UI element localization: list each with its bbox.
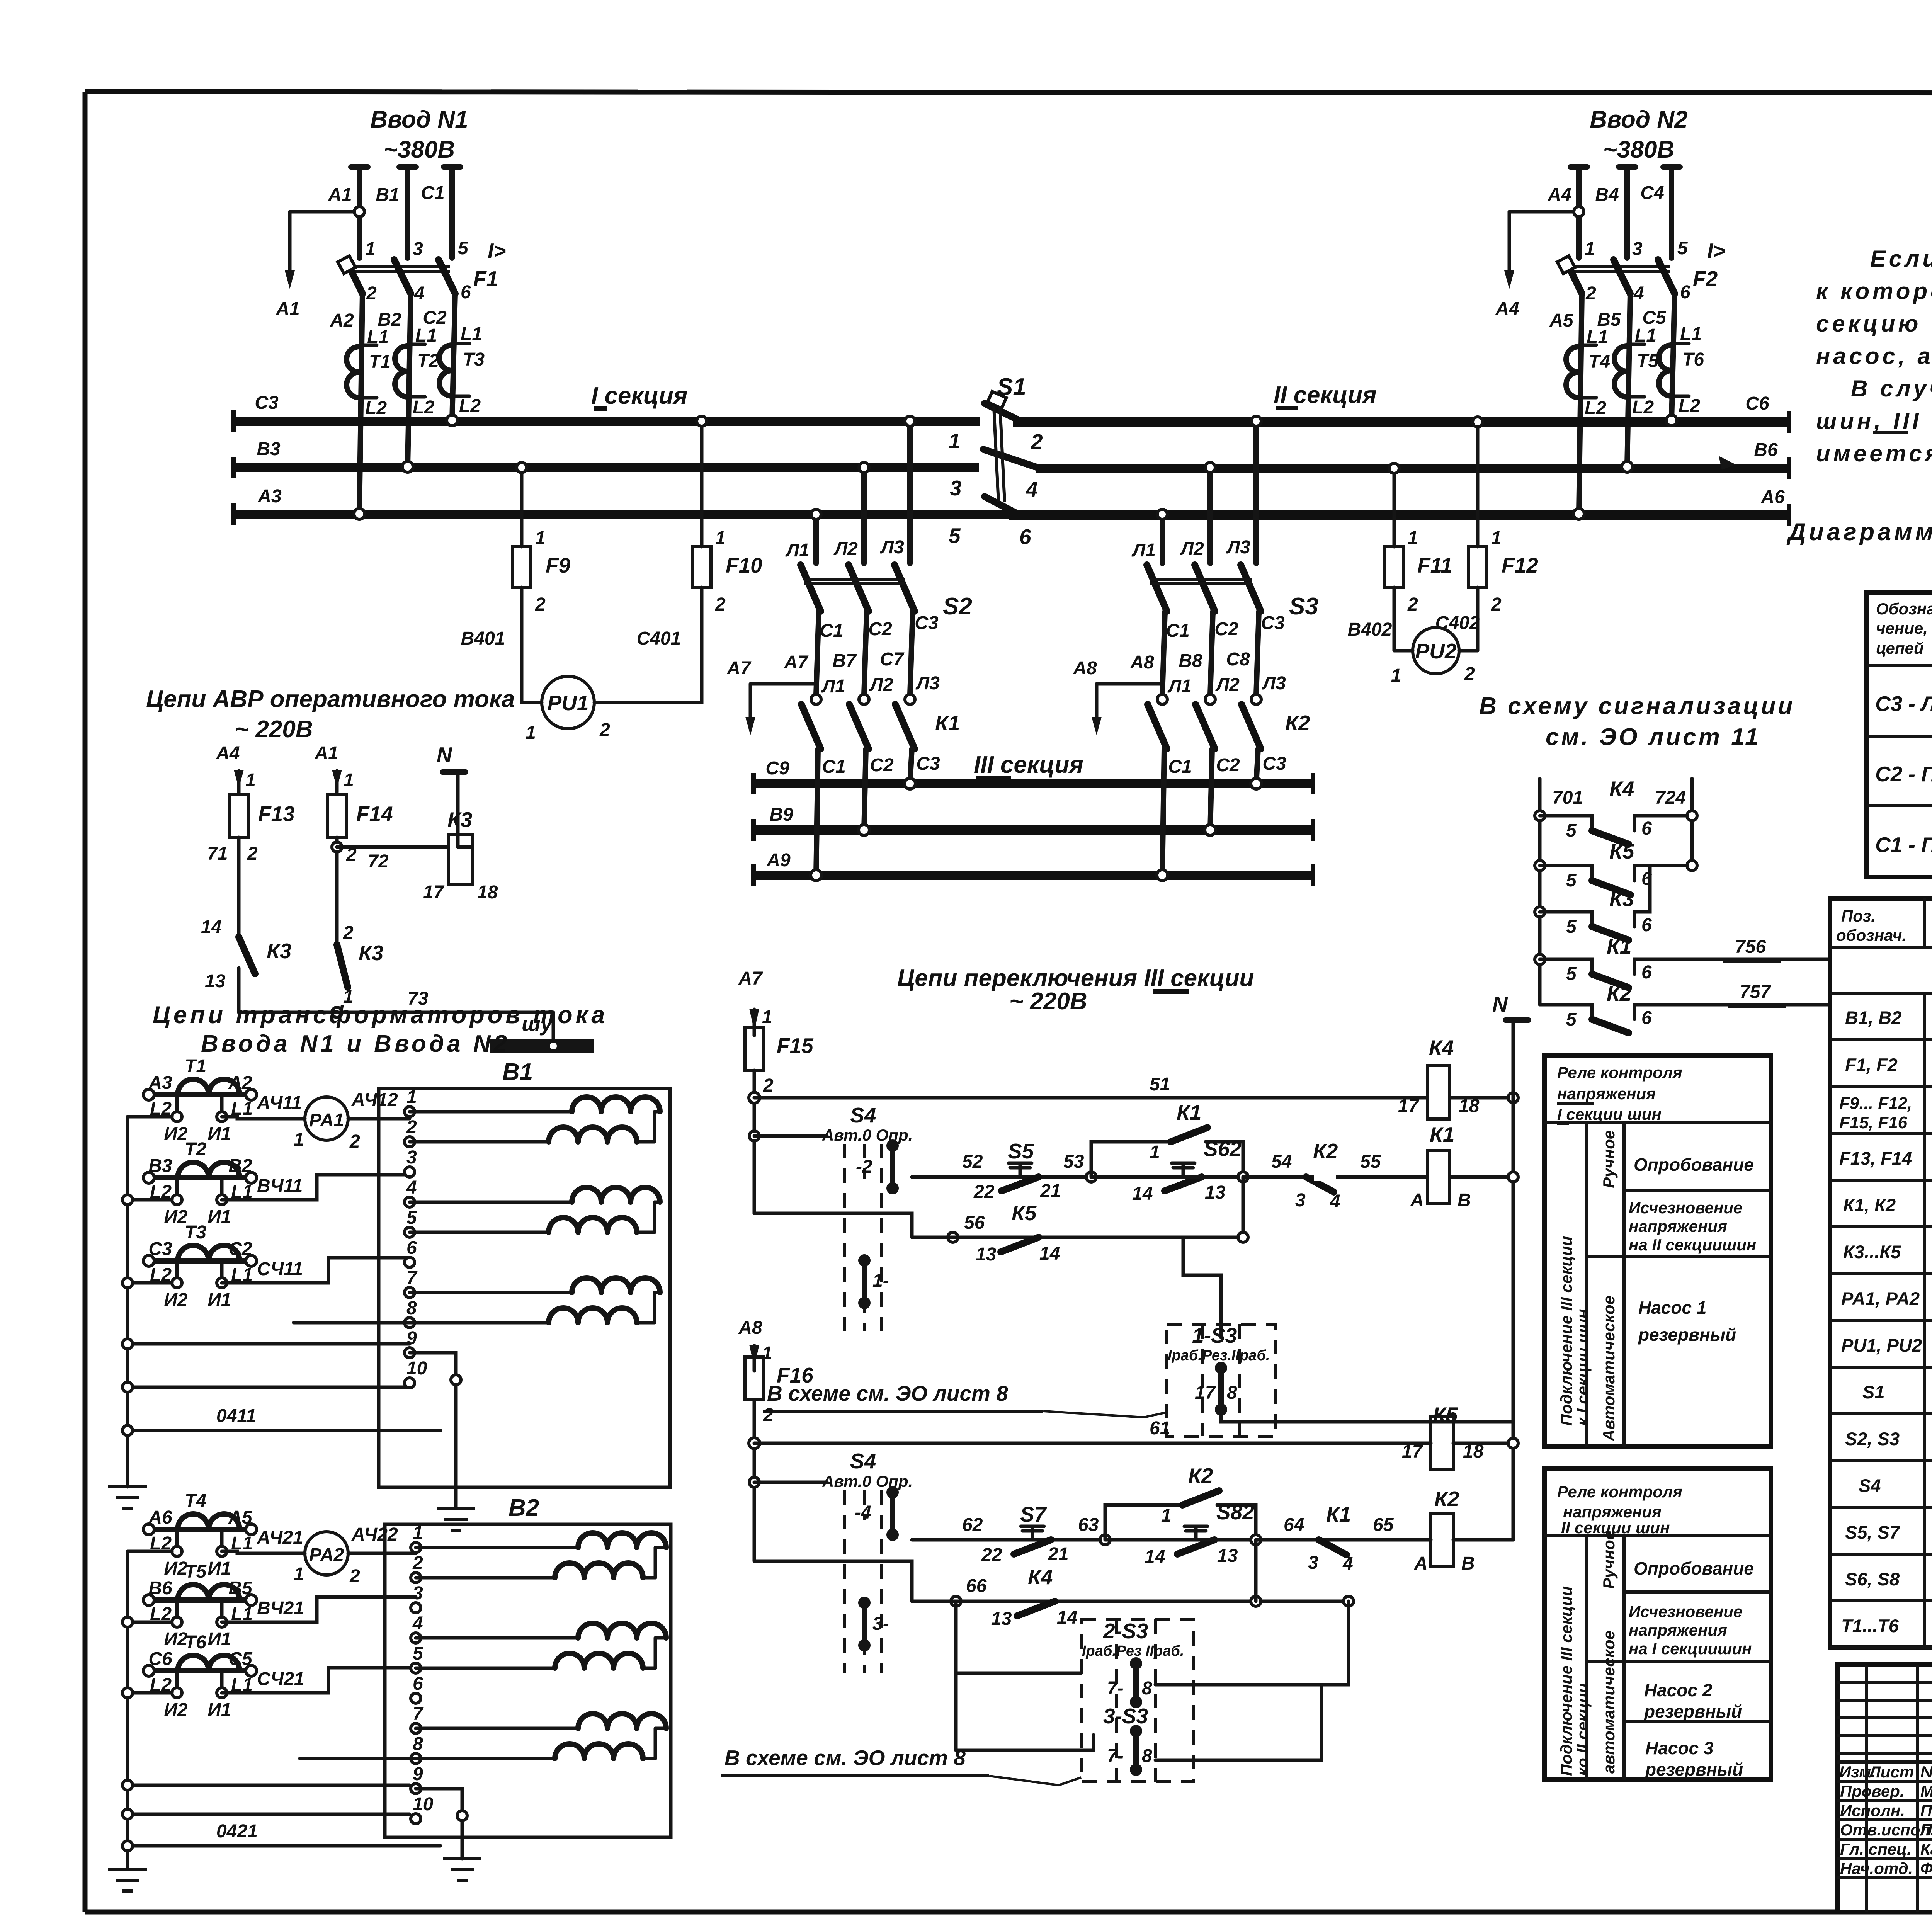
svg-text:1: 1 bbox=[535, 528, 546, 548]
svg-text:5: 5 bbox=[1566, 917, 1577, 937]
svg-text:2: 2 bbox=[343, 923, 354, 943]
svg-text:А6: А6 bbox=[1760, 487, 1785, 507]
svg-text:F9: F9 bbox=[546, 553, 571, 577]
svg-text:АЧ12: АЧ12 bbox=[351, 1090, 398, 1110]
svg-text:И1: И1 bbox=[207, 1558, 231, 1579]
svg-text:2: 2 bbox=[763, 1405, 774, 1425]
svg-text:С1: С1 bbox=[421, 183, 444, 203]
svg-text:Л1: Л1 bbox=[1131, 540, 1156, 561]
svg-text:А1: А1 bbox=[314, 743, 338, 764]
svg-text:L2: L2 bbox=[1585, 398, 1606, 418]
svg-text:Т5: Т5 bbox=[185, 1561, 207, 1582]
svg-text:F9... F12,: F9... F12, bbox=[1839, 1094, 1912, 1113]
svg-text:2: 2 bbox=[1585, 283, 1596, 304]
svg-text:2: 2 bbox=[412, 1553, 423, 1573]
svg-text:~ 220В: ~ 220В bbox=[1009, 988, 1087, 1015]
svg-text:И2: И2 bbox=[164, 1207, 188, 1227]
svg-text:А8: А8 bbox=[738, 1318, 762, 1338]
svg-text:А5: А5 bbox=[1549, 310, 1574, 331]
svg-text:С2: С2 bbox=[870, 755, 894, 776]
svg-text:17: 17 bbox=[1402, 1441, 1423, 1462]
svg-text:Л1: Л1 bbox=[821, 676, 845, 697]
svg-text:L1: L1 bbox=[367, 327, 389, 347]
svg-text:63: 63 bbox=[1078, 1515, 1099, 1535]
svg-text:7-: 7- bbox=[1107, 1746, 1124, 1766]
svg-text:3-S3: 3-S3 bbox=[1103, 1704, 1148, 1728]
svg-text:54: 54 bbox=[1271, 1151, 1292, 1172]
svg-text:К3: К3 bbox=[267, 939, 291, 963]
svg-text:13: 13 bbox=[205, 971, 226, 992]
svg-text:756: 756 bbox=[1735, 937, 1766, 957]
svg-text:14: 14 bbox=[1145, 1547, 1165, 1567]
svg-text:66: 66 bbox=[966, 1576, 987, 1596]
svg-text:8: 8 bbox=[1227, 1383, 1237, 1403]
svg-text:Исчезновение: Исчезновение bbox=[1629, 1602, 1742, 1621]
svg-text:К1: К1 bbox=[1326, 1502, 1351, 1526]
svg-text:5: 5 bbox=[458, 238, 469, 259]
svg-text:13: 13 bbox=[976, 1244, 997, 1265]
svg-text:8: 8 bbox=[406, 1298, 417, 1318]
svg-text:III секция: III секция bbox=[974, 752, 1083, 778]
svg-text:6: 6 bbox=[1641, 818, 1652, 839]
svg-text:F15: F15 bbox=[777, 1034, 814, 1058]
svg-text:L1: L1 bbox=[461, 324, 482, 344]
svg-text:К1: К1 bbox=[935, 711, 960, 735]
svg-text:С3: С3 bbox=[915, 613, 939, 633]
svg-text:С2 - П2: С2 - П2 bbox=[1875, 762, 1932, 786]
svg-text:К4: К4 bbox=[1429, 1036, 1454, 1060]
svg-text:61: 61 bbox=[1150, 1418, 1170, 1439]
svg-text:S7: S7 bbox=[1020, 1502, 1047, 1526]
svg-text:8: 8 bbox=[1142, 1678, 1152, 1699]
svg-text:Отв.испол.: Отв.испол. bbox=[1840, 1821, 1932, 1839]
svg-text:АЧ21: АЧ21 bbox=[257, 1527, 303, 1548]
svg-text:Исполн.: Исполн. bbox=[1840, 1801, 1905, 1820]
svg-text:4: 4 bbox=[1330, 1191, 1340, 1212]
svg-text:6: 6 bbox=[1641, 915, 1652, 935]
svg-text:F14: F14 bbox=[356, 802, 393, 826]
svg-text:1: 1 bbox=[1491, 528, 1502, 548]
svg-text:3: 3 bbox=[950, 476, 962, 500]
svg-text:I>: I> bbox=[1707, 239, 1725, 263]
svg-text:1: 1 bbox=[245, 770, 256, 791]
svg-text:К3: К3 bbox=[359, 941, 383, 965]
svg-text:В: В bbox=[1461, 1553, 1475, 1574]
svg-text:С3: С3 bbox=[1262, 753, 1286, 774]
svg-text:РА1, РА2: РА1, РА2 bbox=[1841, 1288, 1920, 1309]
svg-text:В2: В2 bbox=[509, 1495, 539, 1521]
svg-text:1: 1 bbox=[1150, 1142, 1160, 1163]
svg-text:~380В: ~380В bbox=[384, 136, 455, 163]
svg-text:53: 53 bbox=[1063, 1151, 1084, 1172]
svg-text:СЧ11: СЧ11 bbox=[257, 1259, 303, 1279]
svg-text:Л2: Л2 bbox=[833, 539, 858, 559]
svg-text:F13: F13 bbox=[258, 802, 295, 826]
svg-text:Опробование: Опробование bbox=[1634, 1155, 1754, 1175]
svg-text:РА1: РА1 bbox=[309, 1110, 344, 1131]
svg-text:3: 3 bbox=[1295, 1190, 1306, 1211]
svg-text:С8: С8 bbox=[1226, 649, 1250, 670]
svg-text:2-S3: 2-S3 bbox=[1103, 1619, 1148, 1643]
svg-text:напряжения: напряжения bbox=[1557, 1085, 1656, 1103]
svg-text:4: 4 bbox=[412, 1613, 423, 1634]
svg-text:2: 2 bbox=[535, 594, 546, 615]
svg-text:51: 51 bbox=[1150, 1074, 1170, 1095]
svg-text:К5: К5 bbox=[1012, 1201, 1037, 1225]
svg-text:Л2: Л2 bbox=[1215, 675, 1240, 695]
svg-text:В4: В4 bbox=[1595, 185, 1619, 205]
svg-text:S5: S5 bbox=[1008, 1139, 1034, 1163]
svg-text:В схему сигнализации: В схему сигнализации bbox=[1479, 693, 1795, 719]
svg-text:И1: И1 bbox=[207, 1124, 231, 1144]
svg-text:Насос 3: Насос 3 bbox=[1645, 1738, 1714, 1758]
svg-text:Поз.: Поз. bbox=[1841, 907, 1876, 925]
svg-text:С2: С2 bbox=[868, 619, 892, 639]
svg-text:6: 6 bbox=[461, 282, 471, 303]
svg-text:Насос 2: Насос 2 bbox=[1644, 1680, 1713, 1700]
svg-text:В3: В3 bbox=[257, 439, 281, 459]
svg-text:757: 757 bbox=[1740, 982, 1771, 1002]
svg-text:И1: И1 bbox=[207, 1207, 231, 1227]
svg-text:АЧ11: АЧ11 bbox=[257, 1093, 302, 1113]
svg-text:К2: К2 bbox=[1188, 1464, 1213, 1488]
svg-text:К3...К5: К3...К5 bbox=[1843, 1242, 1901, 1262]
svg-text:Подключение III секции: Подключение III секции bbox=[1557, 1236, 1575, 1426]
svg-text:S3: S3 bbox=[1289, 593, 1318, 620]
svg-text:5: 5 bbox=[1566, 870, 1577, 891]
svg-text:Л3: Л3 bbox=[880, 537, 904, 558]
svg-text:А4: А4 bbox=[1547, 185, 1571, 205]
svg-text:напряжения: напряжения bbox=[1563, 1503, 1662, 1521]
svg-text:5: 5 bbox=[1566, 964, 1577, 984]
svg-text:Насос 1: Насос 1 bbox=[1638, 1298, 1706, 1318]
svg-text:2: 2 bbox=[406, 1117, 417, 1138]
svg-text:1: 1 bbox=[344, 770, 354, 791]
svg-text:напряжения: напряжения bbox=[1629, 1621, 1727, 1639]
svg-text:22: 22 bbox=[981, 1545, 1002, 1565]
svg-text:Диаграммы замыкания контакто: Диаграммы замыкания контактов переключат… bbox=[1786, 519, 1932, 546]
svg-text:F15, F16: F15, F16 bbox=[1839, 1113, 1908, 1132]
svg-text:5: 5 bbox=[1677, 238, 1688, 259]
svg-text:Гл. спец.: Гл. спец. bbox=[1840, 1840, 1912, 1858]
svg-text:3: 3 bbox=[413, 239, 423, 259]
svg-text:2: 2 bbox=[599, 720, 610, 740]
svg-text:С4: С4 bbox=[1640, 183, 1664, 203]
svg-text:10: 10 bbox=[406, 1358, 427, 1379]
svg-text:И1: И1 bbox=[207, 1629, 231, 1650]
svg-text:2: 2 bbox=[715, 594, 726, 615]
svg-text:L1: L1 bbox=[1587, 327, 1608, 347]
svg-text:1-S3: 1-S3 bbox=[1192, 1323, 1237, 1347]
svg-text:2: 2 bbox=[349, 1566, 360, 1587]
svg-text:5: 5 bbox=[949, 524, 961, 548]
svg-text:2: 2 bbox=[1407, 594, 1418, 615]
svg-text:Iраб.Рез.IIраб.: Iраб.Рез.IIраб. bbox=[1168, 1347, 1270, 1364]
svg-text:А1: А1 bbox=[276, 299, 299, 319]
svg-text:L2: L2 bbox=[1679, 396, 1700, 416]
svg-text:S4: S4 bbox=[850, 1103, 876, 1127]
svg-text:К3: К3 bbox=[447, 808, 472, 832]
svg-text:3: 3 bbox=[406, 1147, 417, 1168]
svg-text:резервный: резервный bbox=[1643, 1701, 1742, 1721]
svg-text:А2: А2 bbox=[330, 310, 354, 331]
svg-text:S6, S8: S6, S8 bbox=[1845, 1569, 1900, 1589]
svg-text:И1: И1 bbox=[207, 1700, 231, 1720]
svg-text:Фропов: Фропов bbox=[1920, 1859, 1932, 1878]
svg-text:L1: L1 bbox=[415, 325, 437, 346]
svg-text:1: 1 bbox=[1408, 528, 1418, 548]
svg-text:имеется напряжение.: имеется напряжение. bbox=[1816, 440, 1932, 466]
svg-text:С1: С1 bbox=[822, 757, 845, 777]
svg-text:А8: А8 bbox=[1073, 658, 1097, 679]
svg-text:S4: S4 bbox=[1859, 1475, 1881, 1496]
svg-text:14: 14 bbox=[1039, 1243, 1060, 1264]
svg-text:1: 1 bbox=[365, 239, 376, 259]
svg-text:13: 13 bbox=[1205, 1182, 1226, 1203]
svg-text:Исчезновение: Исчезновение bbox=[1629, 1199, 1742, 1217]
svg-text:Авт.0 Опр.: Авт.0 Опр. bbox=[822, 1472, 913, 1490]
svg-text:С6: С6 bbox=[1745, 393, 1769, 414]
svg-text:S2: S2 bbox=[943, 593, 972, 620]
svg-text:5: 5 bbox=[406, 1207, 417, 1228]
svg-text:L1: L1 bbox=[1680, 324, 1702, 344]
svg-text:II секция: II секция bbox=[1274, 382, 1377, 408]
svg-text:56: 56 bbox=[964, 1213, 985, 1233]
svg-text:В6: В6 bbox=[1754, 440, 1778, 460]
svg-text:В1: В1 bbox=[376, 185, 399, 205]
svg-text:А4: А4 bbox=[216, 743, 240, 764]
svg-text:С3: С3 bbox=[916, 753, 940, 774]
svg-text:С2: С2 bbox=[1214, 619, 1238, 639]
svg-text:17: 17 bbox=[1195, 1383, 1216, 1403]
svg-text:Реле контроля: Реле контроля bbox=[1557, 1483, 1682, 1501]
svg-text:В: В bbox=[1458, 1190, 1471, 1211]
svg-text:6: 6 bbox=[1641, 962, 1652, 983]
svg-text:52: 52 bbox=[962, 1151, 983, 1172]
svg-text:PU1: PU1 bbox=[548, 691, 589, 715]
svg-text:К2: К2 bbox=[1434, 1487, 1459, 1511]
svg-text:резервный: резервный bbox=[1645, 1759, 1743, 1779]
svg-text:Реле контроля: Реле контроля bbox=[1557, 1063, 1682, 1082]
svg-text:F2: F2 bbox=[1693, 267, 1718, 291]
svg-text:К5: К5 bbox=[1609, 839, 1635, 863]
svg-text:~ 220В: ~ 220В bbox=[235, 716, 313, 743]
svg-text:14: 14 bbox=[201, 917, 221, 937]
svg-text:F13, F14: F13, F14 bbox=[1839, 1148, 1912, 1168]
svg-text:И1: И1 bbox=[207, 1290, 231, 1310]
svg-text:К2: К2 bbox=[1313, 1139, 1338, 1163]
svg-text:4: 4 bbox=[1633, 283, 1644, 304]
svg-text:С1 - П1: С1 - П1 bbox=[1875, 833, 1932, 857]
svg-text:Цепи трансформаторов тока: Цепи трансформаторов тока bbox=[153, 1002, 608, 1029]
svg-text:В7: В7 bbox=[832, 651, 857, 671]
svg-text:7-: 7- bbox=[1107, 1678, 1124, 1699]
svg-text:6: 6 bbox=[1641, 1008, 1652, 1028]
svg-text:4: 4 bbox=[1342, 1554, 1353, 1574]
svg-text:6: 6 bbox=[1019, 525, 1031, 549]
svg-text:Т1: Т1 bbox=[369, 352, 391, 372]
svg-text:С1: С1 bbox=[820, 621, 843, 641]
svg-text:-2: -2 bbox=[856, 1156, 872, 1177]
svg-text:1: 1 bbox=[949, 429, 961, 453]
svg-text:Цепи АВР оперативного тока: Цепи АВР оперативного тока bbox=[146, 686, 515, 713]
svg-text:65: 65 bbox=[1373, 1515, 1394, 1535]
svg-text:Л1: Л1 bbox=[1167, 676, 1192, 697]
svg-text:5: 5 bbox=[413, 1643, 423, 1664]
svg-text:3: 3 bbox=[413, 1583, 423, 1604]
svg-text:на I секциишин: на I секциишин bbox=[1629, 1639, 1752, 1658]
svg-text:А3: А3 bbox=[257, 486, 282, 507]
svg-text:4: 4 bbox=[406, 1177, 417, 1198]
svg-text:I>: I> bbox=[488, 239, 506, 263]
svg-text:секцию шин ( I или II ),: секцию шин ( I или II ), к которой подкл… bbox=[1816, 311, 1932, 337]
svg-text:~380В: ~380В bbox=[1603, 136, 1674, 163]
svg-text:цепей: цепей bbox=[1876, 639, 1924, 657]
svg-text:Мизяк: Мизяк bbox=[1920, 1782, 1932, 1800]
svg-text:Ручное: Ручное bbox=[1600, 1531, 1618, 1589]
svg-text:8: 8 bbox=[413, 1734, 423, 1754]
svg-text:Если третий насос является: Если третий насос является рабочим, то I… bbox=[1870, 246, 1932, 272]
svg-text:PU2: PU2 bbox=[1415, 639, 1457, 663]
svg-text:2: 2 bbox=[1491, 594, 1502, 615]
svg-text:резервный: резервный bbox=[1638, 1325, 1736, 1345]
svg-text:724: 724 bbox=[1655, 787, 1686, 808]
svg-text:62: 62 bbox=[962, 1515, 983, 1535]
svg-text:S2, S3: S2, S3 bbox=[1845, 1429, 1900, 1449]
svg-text:9: 9 bbox=[413, 1764, 423, 1784]
svg-text:Провер.: Провер. bbox=[1840, 1782, 1905, 1800]
svg-text:К1: К1 bbox=[1430, 1122, 1454, 1146]
svg-text:Л3: Л3 bbox=[915, 673, 940, 694]
svg-text:17: 17 bbox=[1398, 1096, 1420, 1116]
svg-text:ВЧ11: ВЧ11 bbox=[257, 1176, 303, 1196]
svg-text:N: N bbox=[437, 743, 452, 767]
svg-text:Л3: Л3 bbox=[1262, 673, 1286, 694]
svg-text:С3 - Л3: С3 - Л3 bbox=[1875, 692, 1932, 716]
svg-text:21: 21 bbox=[1040, 1181, 1061, 1201]
svg-text:S82: S82 bbox=[1216, 1500, 1254, 1524]
svg-text:Т4: Т4 bbox=[1588, 352, 1610, 372]
svg-text:7: 7 bbox=[413, 1704, 424, 1724]
svg-text:В402: В402 bbox=[1348, 619, 1392, 640]
svg-text:С401: С401 bbox=[637, 628, 681, 649]
svg-text:L2: L2 bbox=[365, 398, 387, 418]
svg-text:С9: С9 bbox=[765, 758, 789, 779]
svg-text:4: 4 bbox=[414, 283, 425, 304]
svg-text:1: 1 bbox=[762, 1007, 772, 1027]
svg-text:Т5: Т5 bbox=[1637, 351, 1659, 371]
svg-text:8: 8 bbox=[1142, 1746, 1152, 1766]
svg-text:S5, S7: S5, S7 bbox=[1845, 1522, 1900, 1543]
svg-text:5: 5 bbox=[1566, 820, 1577, 841]
svg-text:I секция: I секция bbox=[591, 383, 687, 409]
svg-text:Т1...Т6: Т1...Т6 bbox=[1841, 1616, 1899, 1636]
svg-text:L1: L1 bbox=[1635, 325, 1656, 346]
svg-text:Ввод N2: Ввод N2 bbox=[1590, 106, 1687, 133]
svg-text:17: 17 bbox=[423, 882, 445, 903]
svg-text:Цепи переключения III секции: Цепи переключения III секции bbox=[897, 965, 1254, 992]
svg-text:21: 21 bbox=[1048, 1544, 1068, 1565]
svg-text:L2: L2 bbox=[413, 397, 434, 418]
svg-text:В8: В8 bbox=[1179, 651, 1202, 671]
svg-text:В схеме см. ЭО лист 8: В схеме см. ЭО лист 8 bbox=[724, 1746, 966, 1770]
svg-text:Педан: Педан bbox=[1920, 1801, 1932, 1820]
svg-text:К1: К1 bbox=[1607, 934, 1631, 958]
svg-text:А7: А7 bbox=[738, 968, 763, 989]
svg-text:Ручное: Ручное bbox=[1600, 1130, 1618, 1188]
svg-text:№докум.: №докум. bbox=[1920, 1763, 1932, 1781]
svg-text:1: 1 bbox=[1585, 239, 1595, 259]
svg-text:701: 701 bbox=[1552, 787, 1583, 808]
svg-text:3-: 3- bbox=[872, 1614, 889, 1634]
svg-text:АЧ22: АЧ22 bbox=[351, 1524, 398, 1545]
svg-text:В9: В9 bbox=[769, 804, 793, 825]
svg-text:64: 64 bbox=[1284, 1515, 1304, 1535]
svg-text:6: 6 bbox=[413, 1673, 423, 1694]
svg-text:насос, а если резервным -: насос, а если резервным - на II секцию. bbox=[1816, 343, 1932, 369]
svg-text:S62: S62 bbox=[1204, 1137, 1242, 1161]
svg-text:Т2: Т2 bbox=[185, 1139, 206, 1160]
svg-text:В1: В1 bbox=[502, 1059, 533, 1085]
svg-text:13: 13 bbox=[991, 1609, 1012, 1629]
svg-text:F11: F11 bbox=[1417, 553, 1452, 577]
svg-text:Нач.отд.: Нач.отд. bbox=[1840, 1859, 1913, 1878]
svg-text:А8: А8 bbox=[1130, 652, 1154, 673]
svg-text:1: 1 bbox=[413, 1523, 423, 1543]
svg-text:1: 1 bbox=[294, 1129, 304, 1150]
svg-text:С3: С3 bbox=[1261, 613, 1285, 633]
svg-text:2: 2 bbox=[349, 1131, 360, 1152]
svg-text:Обозна-: Обозна- bbox=[1876, 600, 1932, 618]
svg-text:К2: К2 bbox=[1285, 711, 1310, 735]
svg-text:И2: И2 bbox=[164, 1700, 188, 1720]
svg-text:PU1, PU2: PU1, PU2 bbox=[1841, 1335, 1922, 1355]
svg-text:F12: F12 bbox=[1502, 553, 1538, 577]
svg-text:L2: L2 bbox=[459, 396, 481, 416]
svg-text:2: 2 bbox=[366, 283, 377, 304]
svg-text:Автоматическое: Автоматическое bbox=[1600, 1296, 1618, 1442]
svg-text:Т2: Т2 bbox=[417, 351, 439, 371]
svg-text:1: 1 bbox=[294, 1564, 304, 1585]
svg-text:6: 6 bbox=[406, 1238, 417, 1258]
svg-text:к которой он подключен, авто: к которой он подключен, автоматически пе… bbox=[1816, 278, 1932, 304]
svg-text:1: 1 bbox=[526, 723, 536, 743]
svg-text:Т6: Т6 bbox=[185, 1632, 206, 1653]
svg-text:чение,: чение, bbox=[1876, 619, 1928, 637]
svg-text:1: 1 bbox=[1161, 1505, 1172, 1526]
svg-text:Iраб.Рез IIраб.: Iраб.Рез IIраб. bbox=[1082, 1643, 1184, 1659]
svg-text:К3: К3 bbox=[1609, 887, 1634, 911]
svg-text:5: 5 bbox=[1566, 1009, 1577, 1030]
svg-text:А4: А4 bbox=[1495, 299, 1519, 319]
svg-text:72: 72 bbox=[368, 851, 389, 872]
svg-text:2: 2 bbox=[247, 844, 258, 864]
svg-text:2: 2 bbox=[763, 1075, 774, 1096]
svg-text:3: 3 bbox=[1308, 1553, 1318, 1573]
svg-text:10: 10 bbox=[413, 1794, 434, 1815]
svg-text:7: 7 bbox=[406, 1268, 418, 1288]
svg-text:К1: К1 bbox=[1177, 1100, 1201, 1124]
svg-text:Подключение III секции: Подключение III секции bbox=[1557, 1586, 1575, 1776]
svg-text:F16: F16 bbox=[777, 1363, 813, 1387]
svg-text:1: 1 bbox=[1391, 665, 1401, 686]
svg-text:С1: С1 bbox=[1168, 757, 1192, 777]
svg-text:ВЧ21: ВЧ21 bbox=[257, 1598, 304, 1619]
svg-text:А: А bbox=[1410, 1190, 1424, 1211]
svg-text:С1: С1 bbox=[1166, 621, 1189, 641]
svg-text:F1, F2: F1, F2 bbox=[1845, 1054, 1898, 1075]
svg-text:Казаров: Казаров bbox=[1920, 1840, 1932, 1858]
